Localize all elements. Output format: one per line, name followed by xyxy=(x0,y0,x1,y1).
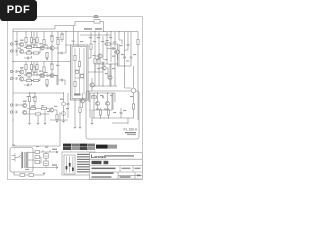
ground gnd1 xyxy=(46,59,49,60)
wire R1 xyxy=(25,32,27,48)
wire Q8 row xyxy=(27,113,50,115)
capacitor C2 xyxy=(16,50,17,53)
capacitor C22 xyxy=(28,57,29,60)
resistor R25 emitter xyxy=(99,110,101,115)
node out xyxy=(100,117,101,118)
wire R25 xyxy=(100,108,102,118)
wire out link xyxy=(112,122,128,124)
logo tagline xyxy=(104,155,134,156)
wire R11 xyxy=(37,62,40,76)
wire drop x107 xyxy=(106,32,108,55)
wire top supply bus B xyxy=(13,31,138,33)
transistor Q13 xyxy=(105,101,109,105)
node nA xyxy=(25,47,26,48)
slider VR2 knob xyxy=(69,163,71,166)
input jack J1 xyxy=(10,43,14,45)
node feed xyxy=(12,119,13,120)
capacitor C21 xyxy=(127,45,130,46)
transistor U1-Q2 xyxy=(80,74,83,77)
wire C17 xyxy=(43,152,50,160)
resistor R26 emitter xyxy=(107,110,109,115)
wire x95 extend xyxy=(95,54,118,86)
wire J3 to Q4 xyxy=(18,71,20,73)
title row3 cell text xyxy=(122,168,131,170)
transistor U1-Q1 xyxy=(75,70,78,73)
wire C13 xyxy=(124,32,126,67)
resistor R4 xyxy=(26,52,31,54)
transformer T1 core xyxy=(24,152,25,168)
title row3 cells xyxy=(120,166,133,172)
resistor R35 xyxy=(33,67,35,72)
resistor U1-R3 xyxy=(74,81,76,86)
wire R33 xyxy=(37,32,44,49)
IC module U1 inner xyxy=(72,47,87,99)
label -40 xyxy=(52,164,57,165)
wire R34 xyxy=(32,50,40,53)
slider VR2 xyxy=(69,157,71,173)
resistor R39 xyxy=(79,107,81,112)
node bus2 xyxy=(90,34,91,35)
wire R26 xyxy=(108,108,110,118)
capacitor C3 xyxy=(47,47,48,50)
resistor R15 xyxy=(30,107,35,109)
sheet number 1/1 xyxy=(137,175,141,177)
capacitor C13 xyxy=(123,57,126,58)
label R3 xyxy=(27,45,31,46)
node U1 in xyxy=(65,44,66,45)
wire R20 down xyxy=(90,49,92,58)
resistor R34 xyxy=(33,52,38,54)
wire row 48 xyxy=(107,48,116,50)
title HOBBY text xyxy=(92,161,102,164)
transformer T1 coil1 xyxy=(22,152,24,168)
resistor R29 xyxy=(57,39,59,44)
node pcb xyxy=(89,109,90,110)
fuse F2 xyxy=(20,174,25,177)
slider VR3 xyxy=(72,157,74,173)
input jack J4 xyxy=(10,77,14,79)
title row line 2 xyxy=(90,165,143,167)
wire drop x95 xyxy=(94,32,96,59)
wire C14 xyxy=(130,32,132,67)
wire LP1 xyxy=(133,66,135,104)
ground gnd3 xyxy=(56,121,59,122)
node row1 xyxy=(33,47,34,48)
resistor R6 xyxy=(46,52,48,57)
ground gnd4 xyxy=(62,121,65,122)
title row4 text xyxy=(92,172,114,174)
wire R35 xyxy=(33,62,35,76)
capacitor C9 electrolytic xyxy=(62,102,66,106)
wire drop x115 xyxy=(114,32,115,45)
transistor Q15 xyxy=(50,73,54,77)
wire R8 xyxy=(31,62,33,76)
wire drop x45 xyxy=(44,111,46,123)
wire R31 xyxy=(51,62,53,74)
capacitor C20 xyxy=(62,79,63,82)
wire drop x111 xyxy=(110,32,112,63)
label Q1 xyxy=(20,40,24,41)
transistor Q17 xyxy=(102,66,106,70)
node bus junctions xyxy=(65,31,66,32)
wire C11 xyxy=(67,93,69,118)
label F1 xyxy=(94,17,99,18)
slider VR1 knob xyxy=(66,166,68,169)
resistor U1-R1 xyxy=(74,55,76,60)
capacitor C4 xyxy=(16,70,17,73)
label U1 PL80 xyxy=(74,94,81,96)
label bus2 xyxy=(95,28,102,30)
wire +V out xyxy=(43,150,58,168)
resistor R37 xyxy=(33,79,38,81)
wire U1 internal rail1 xyxy=(74,48,76,94)
transistor Q5 xyxy=(20,77,24,81)
PDF badge xyxy=(0,0,37,21)
slider VR1 xyxy=(66,157,68,173)
notes text lines xyxy=(77,154,94,173)
wire second bus right xyxy=(80,34,111,36)
wire right rail xyxy=(137,32,139,121)
diode D4 xyxy=(35,161,40,164)
notes panel sub-box xyxy=(64,155,75,174)
wire arrow +V xyxy=(56,151,58,153)
title row line 4 xyxy=(118,174,142,176)
node nB xyxy=(25,74,26,75)
ground gnd5 xyxy=(28,123,31,124)
resistor R33 xyxy=(43,39,45,44)
wire row120 xyxy=(50,119,68,121)
wire row 93 xyxy=(89,92,115,94)
resistor R13 xyxy=(28,96,30,101)
ground gnd10 xyxy=(91,123,94,124)
wire arrow -V xyxy=(56,167,58,169)
transistor Q12 xyxy=(95,101,99,105)
wire U1 internal rail3 xyxy=(83,48,85,94)
label C9 xyxy=(60,99,63,100)
switch SW1 xyxy=(15,156,22,158)
wire left rail xyxy=(12,29,14,120)
wire U1 internal rail2 xyxy=(79,48,81,94)
wire x111 x115 extend xyxy=(111,64,115,86)
resistor R23 xyxy=(105,43,110,45)
wire D1 down xyxy=(102,64,104,72)
capacitor C15 xyxy=(103,96,104,99)
ground gnd6 xyxy=(37,123,40,124)
resistor R17 xyxy=(41,107,46,109)
title bottom text xyxy=(92,176,112,177)
input jack J5 xyxy=(10,104,14,106)
wire drop x89 xyxy=(88,91,90,102)
input jack J2 xyxy=(10,50,14,52)
label PL100A sub xyxy=(125,132,136,133)
resistor R1 xyxy=(25,37,27,42)
title row line 1 xyxy=(90,158,143,160)
wire row 86 junctions xyxy=(91,85,117,87)
node r86 xyxy=(94,85,95,86)
wire R13 xyxy=(29,93,31,108)
wire drop x30 xyxy=(29,109,31,123)
resistor R10 xyxy=(26,79,31,81)
wire R2 xyxy=(31,32,33,48)
lamp LP1 xyxy=(131,88,136,93)
resistor R21 xyxy=(94,58,96,63)
wire J5 run xyxy=(18,104,23,106)
input jack J6 xyxy=(10,111,14,113)
resistor U1-R2 xyxy=(78,61,80,66)
title row3 text xyxy=(92,168,116,170)
wire Q16 xyxy=(95,55,103,57)
resistor R5 xyxy=(36,37,38,42)
title row line 3 xyxy=(90,171,143,173)
capacitor C8 xyxy=(16,111,17,114)
label specks xyxy=(12,33,136,170)
node row2 xyxy=(33,74,34,75)
wire C16 xyxy=(120,108,122,118)
resistor R11 xyxy=(36,64,38,69)
transistor Q8 xyxy=(23,110,27,114)
wire stage C feed xyxy=(13,92,35,94)
wire C21 xyxy=(124,32,128,51)
IC module U1 outer xyxy=(71,45,89,100)
resistor R20 xyxy=(90,44,92,49)
capacitor C11 xyxy=(67,104,70,105)
wire U1 feed left xyxy=(66,32,71,46)
capacitor C7 xyxy=(16,104,17,107)
wire top of C stage xyxy=(22,92,64,94)
wire output row xyxy=(92,110,128,124)
transistor Q1 xyxy=(20,42,24,46)
PCB outline PL100A board xyxy=(86,91,139,139)
resistor R16 xyxy=(35,113,40,115)
wire row 66 xyxy=(118,65,132,67)
wire drop x119 xyxy=(119,32,122,45)
capacitor C6 xyxy=(47,74,48,77)
wire R37 xyxy=(32,78,40,81)
wire U1 feed top xyxy=(74,26,79,47)
wire R36 xyxy=(37,62,44,78)
wire R22 xyxy=(98,32,100,73)
wire Q13 xyxy=(107,93,109,110)
AC plug P1 xyxy=(12,154,16,162)
maker badge xyxy=(96,145,108,149)
capacitor C23 xyxy=(28,84,29,87)
transistor Q3 xyxy=(40,46,44,50)
notes block frame xyxy=(62,152,95,175)
capacitor C10 electrolytic xyxy=(62,112,66,116)
wire R30 xyxy=(61,32,63,43)
fuse F1 xyxy=(94,20,100,23)
wire R29 xyxy=(57,32,59,62)
node nC xyxy=(29,92,30,93)
wire R27 down xyxy=(128,109,134,118)
ground gnd11 xyxy=(43,173,46,174)
resistor R22 xyxy=(98,58,100,63)
wire C20 xyxy=(58,80,65,85)
label Q4 xyxy=(20,67,24,68)
resistor R36 xyxy=(43,67,45,72)
wire Q1 collector row xyxy=(24,47,37,49)
capacitor C18 filter xyxy=(44,161,48,166)
wire drop x103 xyxy=(102,36,104,60)
wire PSU feed loop xyxy=(13,113,60,146)
wire pcb comb xyxy=(94,93,112,118)
diode D3 xyxy=(35,156,40,159)
wire U1 links xyxy=(75,70,84,78)
resistor R31 xyxy=(51,64,53,69)
resistor R8 xyxy=(30,64,32,69)
wire C19 xyxy=(58,45,66,53)
wire J1 to Q1 xyxy=(18,43,20,45)
ground gnd7 xyxy=(44,123,47,124)
wire Q17 xyxy=(99,68,108,77)
label +40V xyxy=(84,28,92,30)
wire pcb verticals xyxy=(90,93,115,118)
wire PSU bottom run xyxy=(14,172,44,175)
node row66 xyxy=(124,65,125,66)
wire Q19 xyxy=(83,93,87,108)
node mid xyxy=(12,61,13,62)
wire Q4 row xyxy=(24,74,37,76)
transformer T1 primary xyxy=(21,152,23,169)
wire Q5 row xyxy=(24,80,40,82)
label C1 xyxy=(15,41,18,42)
transistor Q11 xyxy=(108,75,112,79)
label PL100A sub2 xyxy=(127,134,136,135)
wire R14 xyxy=(34,93,36,108)
resistor R28 xyxy=(51,36,53,41)
wire mid divider xyxy=(13,61,71,63)
PSU enclosure box xyxy=(10,148,33,173)
label +40 xyxy=(52,149,57,150)
wire caps drop xyxy=(125,66,132,88)
wire C23 xyxy=(24,83,32,85)
resistor R18 xyxy=(56,114,58,119)
wire fuse to bus xyxy=(100,22,104,32)
transistor Q10 xyxy=(115,50,119,54)
wire Q6 out xyxy=(44,76,57,86)
capacitor C1 xyxy=(16,43,17,46)
resistor R7 xyxy=(25,64,27,69)
resistor R3 xyxy=(26,46,31,48)
capacitor C16 xyxy=(120,113,123,114)
wire Q12 xyxy=(97,93,99,110)
capacitor C5 xyxy=(16,77,17,80)
label R9 xyxy=(27,72,31,73)
wire U1 out bottom xyxy=(75,99,80,127)
input jack J3 xyxy=(10,70,14,72)
transistor Q7 xyxy=(23,103,27,107)
resistor R38 on rail xyxy=(137,39,139,44)
capacitor C12 xyxy=(113,47,114,50)
wire Q14 out xyxy=(54,47,58,49)
wire drop x91 xyxy=(90,32,92,45)
transistor Q6 xyxy=(40,73,44,77)
resistor R27 xyxy=(132,104,134,109)
resistor R32 xyxy=(33,39,35,44)
wire C9 xyxy=(63,93,65,120)
wire Q9 out xyxy=(54,110,57,120)
wire Q3 out xyxy=(44,48,52,61)
wire C22 xyxy=(24,56,32,58)
ground gnd9 xyxy=(79,127,82,128)
label R15 xyxy=(31,105,35,106)
node link xyxy=(94,71,95,72)
diode D1 xyxy=(102,62,104,64)
transistor Q9 xyxy=(50,108,54,112)
transistor Q4 xyxy=(20,70,24,74)
capacitor C19 xyxy=(61,52,62,55)
svg-text:PL 100 A: PL 100 A xyxy=(124,128,138,132)
wire Q10 xyxy=(114,44,118,60)
resistor R2 xyxy=(30,37,32,42)
wire R17 xyxy=(40,108,50,110)
wire C18 xyxy=(41,160,50,168)
capacitor C14 xyxy=(130,57,133,58)
wire Q7 row xyxy=(27,108,40,110)
label fuse top xyxy=(94,15,98,16)
diode D2 xyxy=(35,151,40,154)
wire R7 xyxy=(25,62,27,76)
node q14 xyxy=(57,47,58,48)
wire Q2 row xyxy=(24,52,40,54)
legend table xyxy=(63,144,95,150)
node row64 xyxy=(102,63,103,64)
ground gnd8 xyxy=(74,127,77,128)
transistor Q14 xyxy=(50,46,54,50)
wire bridge xyxy=(33,152,43,168)
transformer T1 coil2 xyxy=(26,152,28,168)
transistor Q16 xyxy=(98,54,102,58)
wire mid link xyxy=(88,58,103,72)
wire R5 xyxy=(37,32,40,48)
wire Q11 xyxy=(109,64,111,86)
transformer T1 secondary xyxy=(28,152,33,169)
resistor R12 xyxy=(46,79,48,84)
transistor Q18 xyxy=(90,83,94,87)
resistor R14 xyxy=(34,96,36,101)
wire Q18 xyxy=(91,78,93,91)
wire R32 xyxy=(33,32,35,48)
wire top supply bus A xyxy=(13,22,94,30)
title block frame xyxy=(90,153,143,180)
label Q7 xyxy=(23,101,27,102)
wire out drop x92 xyxy=(91,110,93,122)
transistor Q19 xyxy=(80,99,84,103)
resistor R30 xyxy=(61,34,63,39)
maker badge right xyxy=(108,145,118,149)
resistor R9 xyxy=(26,74,31,76)
wire R28 xyxy=(51,32,53,46)
capacitor C17 filter xyxy=(44,154,48,159)
resistor R24 xyxy=(91,96,96,98)
fuse F3 xyxy=(29,174,34,177)
slider VR3 knob xyxy=(72,168,74,171)
transistor Q2 xyxy=(20,49,24,53)
wire left rail 2 xyxy=(16,32,18,57)
wire Q15 out xyxy=(54,62,58,86)
wire drop x38 xyxy=(37,116,39,122)
wire row64 xyxy=(95,44,119,72)
title bottom cells xyxy=(118,172,135,179)
wire R21 down xyxy=(94,64,96,72)
ground gnd2 xyxy=(46,86,49,87)
wire R23 xyxy=(104,43,114,45)
